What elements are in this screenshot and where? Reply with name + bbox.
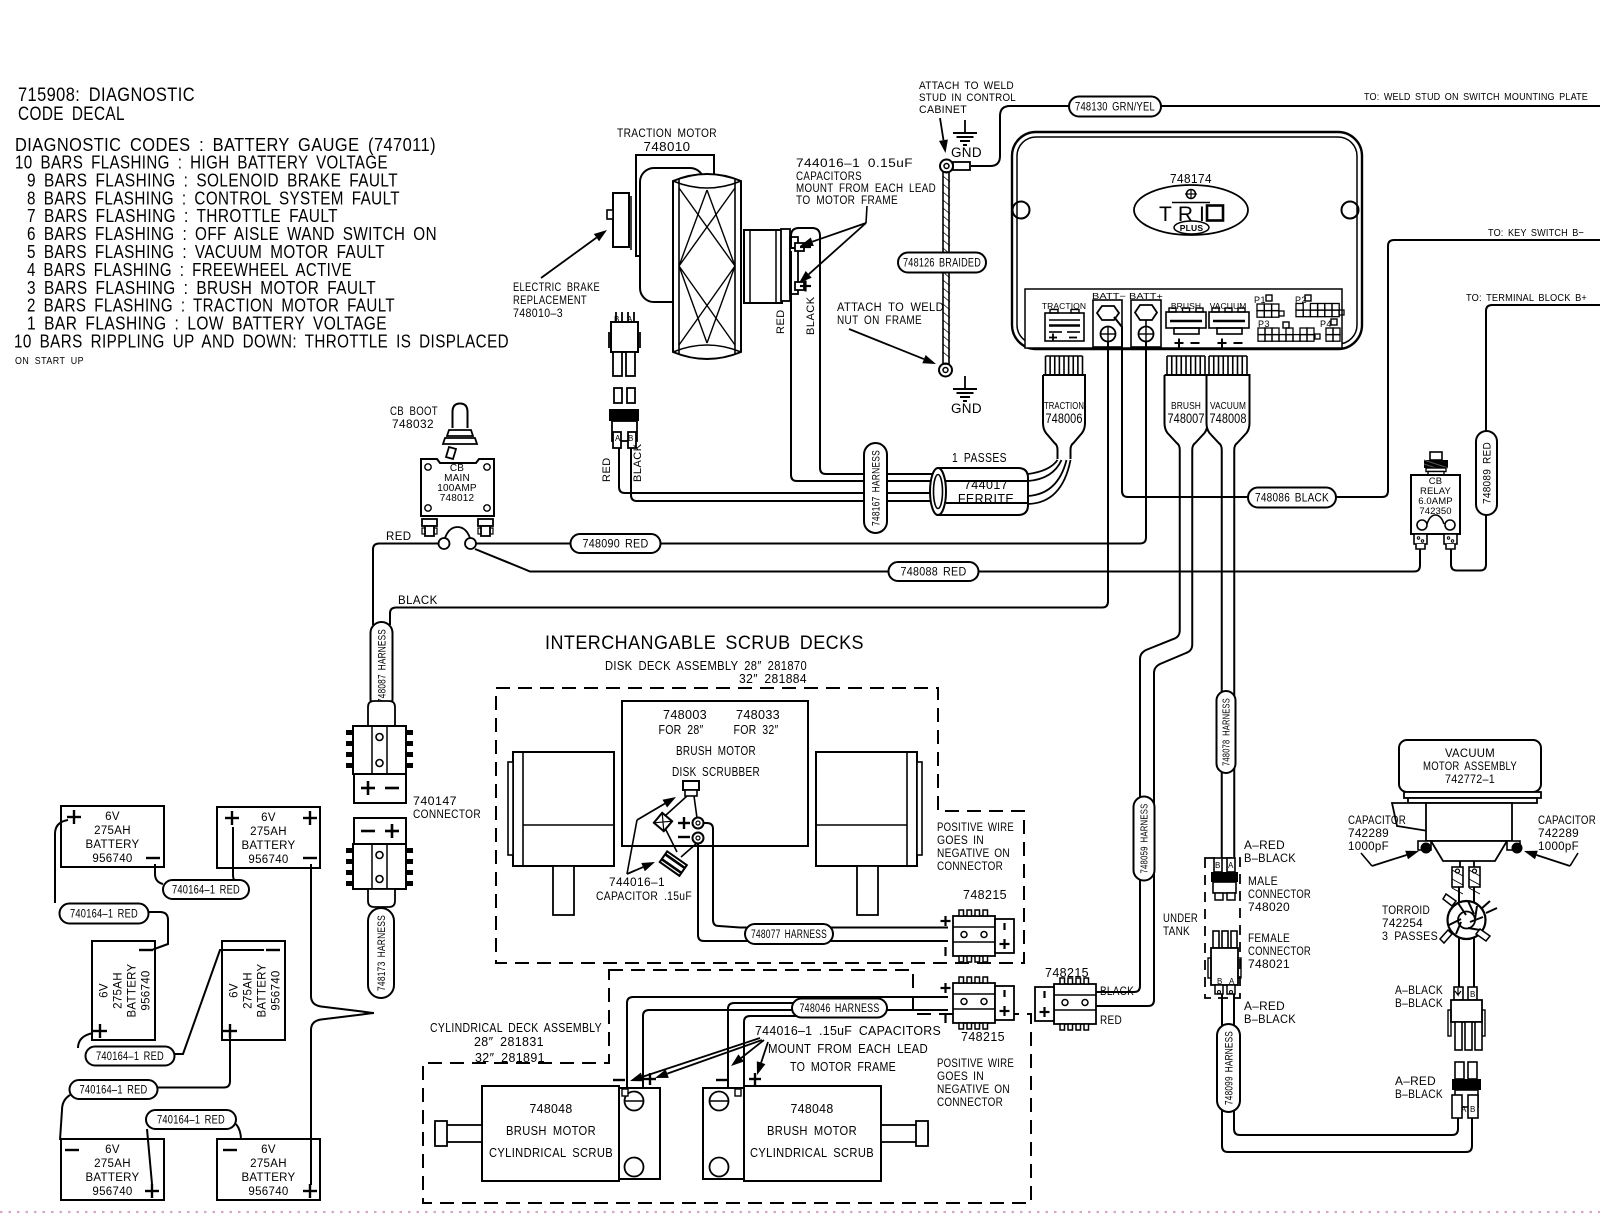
svg-text:BATTERY: BATTERY	[85, 1172, 139, 1184]
wire BATT- hex to key switch B- via 748086 BLACK	[1114, 240, 1600, 497]
diagnostic code decal text block	[14, 85, 509, 367]
svg-text:275AH: 275AH	[250, 826, 287, 838]
wire BATT+ screw to CB MAIN right junction via 748090 RED	[476, 341, 1146, 544]
ring terminal upper	[940, 160, 970, 173]
minus marker cyl motor2	[716, 1079, 728, 1081]
cable connector TRACTION 748006	[1043, 356, 1085, 459]
svg-text:CYLINDRICAL SCRUB: CYLINDRICAL SCRUB	[489, 1146, 613, 1160]
note 744016-1 .15uF capacitors mount from each lead to motor frame	[755, 1024, 941, 1074]
svg-text:748032: 748032	[392, 419, 434, 431]
plus marker at cyl 748215	[941, 987, 951, 989]
svg-text:748088 RED: 748088 RED	[901, 565, 967, 579]
cable connector BRUSH 748007	[1165, 356, 1208, 459]
terminal BATT+ on panel	[1129, 291, 1163, 347]
wire disk plus to 748215 connector	[703, 823, 948, 928]
plus marker cyl motor1	[644, 1078, 656, 1080]
svg-text:744016–1 0.15uF: 744016–1 0.15uF	[796, 158, 913, 170]
vacuum connector lower (A-RED)	[1452, 1062, 1481, 1118]
svg-text:CAPACITOR: CAPACITOR	[1538, 815, 1596, 827]
svg-text:748215: 748215	[1045, 966, 1089, 980]
wire cyl motor2 plus to 748046 harness	[744, 1016, 840, 1087]
svg-text:CONNECTOR: CONNECTOR	[1248, 889, 1311, 901]
svg-text:FEMALE: FEMALE	[1248, 933, 1290, 945]
connector P4 on panel	[1320, 319, 1340, 341]
wire 748130 GRN/YEL to weld stud on mounting plate	[1160, 105, 1600, 107]
svg-text:742254: 742254	[1382, 918, 1423, 930]
svg-text:STUD IN CONTROL: STUD IN CONTROL	[919, 92, 1016, 104]
svg-text:TO: KEY SWITCH B−: TO: KEY SWITCH B−	[1488, 227, 1584, 239]
capacitor 744016-1 on disk motor	[654, 813, 672, 831]
wire vacuum leads through toroid	[1459, 887, 1474, 987]
wire cyl motor2 minus to 748046 harness	[728, 1003, 820, 1087]
svg-text:742289: 742289	[1538, 828, 1579, 840]
svg-text:CONNECTOR: CONNECTOR	[937, 861, 1003, 873]
arrows from capacitor note to motor leads	[630, 1038, 768, 1081]
svg-text:1000pF: 1000pF	[1348, 841, 1389, 853]
minus marker at disk 748215	[944, 947, 946, 956]
cylindrical deck dashed boundary	[423, 970, 1031, 1203]
svg-text:TO: WELD STUD ON SWITCH M: TO: WELD STUD ON SWITCH MOUNTING PLATE	[1364, 91, 1588, 103]
svg-text:BATTERY: BATTERY	[241, 840, 295, 852]
wire BATT- screw to 748087 harness (BLACK)	[390, 341, 1108, 625]
svg-text:956740: 956740	[271, 970, 283, 1010]
svg-text:CB BOOT: CB BOOT	[390, 406, 438, 418]
disk brush motor right (side view)	[816, 752, 922, 915]
positive wire note (disk)	[937, 822, 1014, 873]
svg-text:BATTERY: BATTERY	[85, 839, 139, 851]
connector P2 on panel	[1295, 295, 1344, 317]
svg-text:748167 HARNESS: 748167 HARNESS	[870, 450, 882, 526]
arrow leader from capacitor note to minus terminal	[800, 206, 867, 246]
svg-text:1 PASSES: 1 PASSES	[952, 451, 1007, 465]
svg-text:CYLINDRICAL DECK ASSEMBLY: CYLINDRICAL DECK ASSEMBLY	[430, 1020, 602, 1035]
svg-text:ATTACH TO WELD: ATTACH TO WELD	[919, 80, 1014, 92]
wire 748099 harness to vacuum plug (bottom lead)	[1222, 1110, 1472, 1152]
svg-text:RED: RED	[601, 457, 613, 482]
svg-text:742772–1: 742772–1	[1445, 772, 1495, 786]
svg-text:748089 RED: 748089 RED	[1481, 442, 1493, 504]
svg-text:748010: 748010	[644, 140, 691, 154]
svg-text:TO: TERMINAL BLOCK B+: TO: TERMINAL BLOCK B+	[1466, 292, 1587, 304]
lead from terminal box to plus stud	[694, 796, 697, 818]
wire cyl motor1 minus to 748046 harness	[627, 997, 948, 1087]
svg-text:748090 RED: 748090 RED	[583, 537, 649, 551]
svg-text:748048: 748048	[530, 1102, 573, 1116]
svg-text:FOR 28″: FOR 28″	[659, 723, 704, 737]
wire disk minus to 748215 connector	[698, 843, 948, 941]
svg-text:A–BLACK: A–BLACK	[1395, 985, 1443, 997]
label A-BLACK B-BLACK	[1395, 985, 1443, 1010]
svg-text:748020: 748020	[1248, 902, 1290, 914]
plus marker cyl motor2	[749, 1078, 761, 1080]
label oval 740164-1 RED #4	[70, 1080, 158, 1099]
svg-text:B–BLACK: B–BLACK	[1395, 998, 1443, 1010]
label A-RED B-BLACK below female connector	[1244, 1001, 1296, 1026]
note: attach to weld nut on frame	[837, 302, 944, 327]
label oval 748087 HARNESS vertical	[371, 622, 393, 710]
terminal minus of traction motor	[795, 243, 811, 251]
svg-text:748126 BRAIDED: 748126 BRAIDED	[903, 256, 981, 270]
svg-text:B: B	[1470, 1105, 1476, 1114]
label cylindrical deck assembly part numbers	[430, 1020, 602, 1065]
svg-text:A: A	[1228, 861, 1234, 870]
svg-text:6V: 6V	[99, 983, 111, 998]
ground symbol GND lower	[951, 376, 982, 416]
label oval 748126 BRAIDED	[898, 253, 986, 273]
toggle boot of circuit breaker	[443, 404, 477, 460]
label oval 748130 GRN/YEL	[1069, 97, 1161, 117]
svg-text:748077 HARNESS: 748077 HARNESS	[751, 929, 827, 941]
svg-text:B–BLACK: B–BLACK	[1395, 1089, 1443, 1101]
svg-text:275AH: 275AH	[250, 1158, 287, 1170]
note: 744016-1 0.15uF capacitors mount from each lead to motor frame	[796, 158, 936, 207]
wire 748099 harness to vacuum plug (top lead)	[1234, 1110, 1458, 1135]
svg-text:GOES IN: GOES IN	[937, 835, 984, 847]
battery B5 6V 275AH 956740	[61, 1139, 164, 1200]
svg-text:TRACTION MOTOR: TRACTION MOTOR	[617, 126, 717, 140]
battery B2 6V 275AH 956740	[217, 807, 320, 868]
svg-text:ATTACH TO WELD: ATTACH TO WELD	[837, 302, 944, 314]
svg-text:748087 HARNESS: 748087 HARNESS	[376, 629, 388, 703]
capacitor mount dot left	[1421, 843, 1431, 853]
svg-text:NEGATIVE ON: NEGATIVE ON	[937, 848, 1010, 860]
arrow from cabinet note to ring terminal	[940, 118, 944, 140]
vacuum motor assembly label box 742772-1	[1399, 740, 1541, 792]
label oval 748088 RED	[889, 562, 979, 581]
svg-text:RED: RED	[386, 531, 411, 543]
terminal BATT- on panel	[1092, 291, 1126, 347]
label oval 748078 HARNESS vertical	[1217, 691, 1236, 773]
svg-text:CAPACITORS: CAPACITORS	[796, 171, 862, 183]
label TORROID 742254 3 PASSES	[1382, 905, 1438, 943]
battery B4 6V 275AH 956740 (rotated)	[222, 941, 285, 1040]
svg-text:FOR 32″: FOR 32″	[734, 723, 779, 737]
svg-text:CONNECTOR: CONNECTOR	[937, 1097, 1003, 1109]
minus stud of disk motor	[678, 833, 704, 858]
svg-text:956740: 956740	[248, 1186, 288, 1198]
svg-text:748021: 748021	[1248, 959, 1290, 971]
svg-text:748048: 748048	[791, 1102, 834, 1116]
svg-text:748046 HARNESS: 748046 HARNESS	[800, 1003, 880, 1015]
screw hole left	[1013, 202, 1030, 219]
minus marker at cyl 748215	[944, 1014, 946, 1023]
braided ground strap 748126	[943, 172, 950, 364]
CB MAIN right bolt terminal	[478, 519, 493, 536]
disk scrubber central block with labels	[622, 701, 808, 846]
svg-text:VACUUM: VACUUM	[1445, 746, 1495, 760]
terminal BRUSH on panel	[1166, 301, 1206, 348]
CB boot 748032 label	[390, 406, 438, 431]
label FEMALE CONNECTOR 748021	[1248, 933, 1311, 971]
terminal TRACTION on panel	[1042, 301, 1086, 342]
label oval 748077 HARNESS	[745, 924, 833, 944]
svg-text:748010–3: 748010–3	[513, 308, 563, 320]
svg-text:275AH: 275AH	[113, 972, 125, 1009]
plus stud of disk motor	[678, 817, 704, 829]
page edge dotted line	[0, 1211, 1600, 1213]
svg-text:B: B	[1470, 990, 1476, 999]
svg-text:PLUS: PLUS	[1180, 223, 1204, 233]
svg-text:B: B	[628, 434, 634, 443]
svg-text:744016–1 .15uF CAPACITORS: 744016–1 .15uF CAPACITORS	[755, 1024, 941, 1038]
svg-text:MALE: MALE	[1248, 876, 1278, 888]
svg-text:BATTERY: BATTERY	[127, 963, 139, 1017]
svg-text:ELECTRIC BRAKE: ELECTRIC BRAKE	[513, 282, 600, 294]
junction circle left	[439, 538, 450, 549]
svg-text:BLACK: BLACK	[805, 296, 817, 335]
svg-text:GOES IN: GOES IN	[937, 1071, 984, 1083]
circuit breaker CB RELAY 6.0AMP 742350	[1411, 452, 1460, 534]
label 740147 CONNECTOR	[413, 796, 481, 821]
arrow from note to terminal box	[627, 797, 676, 874]
female connector 748021	[1208, 931, 1241, 994]
jumper hump between CB MAIN junctions	[444, 527, 471, 541]
label oval 748059 HARNESS vertical	[1134, 797, 1155, 881]
wire brake red lead	[631, 448, 933, 501]
arrow from weld nut note to lower ring terminal	[849, 329, 924, 359]
ground symbol GND top	[951, 120, 982, 160]
svg-text:715908: DIAGNOSTIC: 715908: DIAGNOSTIC	[18, 85, 195, 106]
label oval 748046 HARNESS	[792, 999, 887, 1018]
svg-text:6V: 6V	[229, 983, 241, 998]
disk motor terminal box	[683, 781, 699, 796]
svg-text:956740: 956740	[248, 854, 288, 866]
arrow from brake note to motor bracket	[541, 238, 597, 278]
terminal plus of traction motor	[795, 281, 811, 292]
svg-text:BLACK: BLACK	[398, 595, 438, 607]
arrow leader from capacitor note to plus terminal	[809, 223, 866, 274]
controller terminal panel	[1025, 289, 1342, 348]
wire B4+ to B5- jumper	[60, 1038, 230, 1140]
svg-text:748099 HARNESS: 748099 HARNESS	[1223, 1031, 1235, 1105]
svg-text:32″ 281891: 32″ 281891	[475, 1050, 545, 1065]
cable connector VACUUM 748008	[1207, 356, 1250, 459]
svg-text:748033: 748033	[736, 708, 780, 722]
junction circle right	[465, 538, 476, 549]
loose connector 748215 with BLACK/RED leads	[1035, 978, 1096, 1030]
label oval 748086 BLACK	[1248, 488, 1336, 508]
wire brake black lead	[619, 448, 933, 493]
arrow from right capacitor label to dot	[1524, 851, 1578, 866]
male connector 748020	[1211, 858, 1238, 900]
battery B3 6V 275AH 956740 (rotated)	[92, 941, 155, 1040]
svg-text:B–BLACK: B–BLACK	[1244, 1014, 1296, 1026]
ring terminal lower	[939, 364, 952, 377]
svg-text:TO MOTOR FRAME: TO MOTOR FRAME	[790, 1060, 896, 1074]
terminal VACUUM on panel	[1209, 301, 1249, 348]
label oval 740164-1 RED #2	[60, 904, 149, 924]
wire B1+ to B3- jumper	[55, 820, 168, 950]
wire cyl motor1 plus to 748046 harness	[643, 1010, 948, 1087]
svg-text:B: B	[1215, 861, 1221, 870]
svg-text:TANK: TANK	[1163, 926, 1190, 938]
svg-text:POSITIVE WIRE: POSITIVE WIRE	[937, 1058, 1014, 1070]
wire VACUUM cable left lead down to male connector	[1221, 459, 1223, 858]
svg-text:BRUSH MOTOR: BRUSH MOTOR	[767, 1124, 857, 1138]
CB MAIN left bolt terminal	[422, 519, 437, 536]
wire female connector to 748099 harness	[1222, 994, 1234, 1027]
svg-text:748130 GRN/YEL: 748130 GRN/YEL	[1075, 100, 1155, 114]
capacitor lead to terminal box	[665, 796, 687, 852]
label disk deck assembly part numbers	[605, 658, 807, 686]
wire fan from ferrite to traction cable	[1028, 460, 1071, 504]
svg-text:1000pF: 1000pF	[1538, 841, 1579, 853]
positive wire note (cylindrical)	[937, 1058, 1014, 1109]
wire CB MAIN left junction to 748087 harness (RED)	[373, 544, 439, 626]
svg-text:REPLACEMENT: REPLACEMENT	[513, 295, 587, 307]
battery B6 6V 275AH 956740	[217, 1139, 320, 1200]
plus marker at disk 748215	[941, 920, 951, 922]
svg-text:748059 HARNESS: 748059 HARNESS	[1139, 804, 1151, 874]
svg-text:A–RED: A–RED	[1244, 840, 1285, 852]
toroid 742254	[1440, 894, 1497, 943]
wire BRUSH cable left lead down to connector	[1096, 459, 1180, 992]
label A-RED B-BLACK at lower vacuum connector	[1395, 1076, 1443, 1101]
svg-text:TO MOTOR FRAME: TO MOTOR FRAME	[796, 195, 898, 207]
vacuum connector upper (A-BLACK)	[1448, 987, 1485, 1050]
svg-text:748006: 748006	[1046, 411, 1083, 426]
label oval 748089 RED vertical	[1476, 431, 1497, 515]
ferrite 744017 cylinder	[930, 468, 1028, 515]
connector 748215 on disk deck	[963, 888, 1007, 902]
label MALE CONNECTOR 748020	[1248, 876, 1311, 914]
svg-text:748078 HARNESS: 748078 HARNESS	[1221, 698, 1233, 766]
svg-text:6V: 6V	[105, 811, 120, 823]
svg-text:740164–1 RED: 740164–1 RED	[70, 909, 138, 921]
svg-text:BATTERY: BATTERY	[257, 963, 269, 1017]
svg-text:RED: RED	[775, 309, 787, 334]
note 744016-1 CAPACITOR .15uF	[596, 875, 692, 903]
circuit breaker CB MAIN 100AMP 748012	[421, 459, 494, 516]
svg-text:CABINET: CABINET	[919, 104, 967, 116]
svg-text:MOUNT FROM EACH LEAD: MOUNT FROM EACH LEAD	[796, 183, 936, 195]
svg-text:740164–1 RED: 740164–1 RED	[96, 1051, 164, 1063]
traction motor 748010	[607, 155, 798, 359]
svg-text:744016–1: 744016–1	[609, 875, 665, 889]
wire traction motor red lead	[791, 251, 933, 481]
capacitor mount dot right	[1512, 843, 1522, 853]
disk brush motor left (side view)	[508, 752, 614, 915]
svg-text:275AH: 275AH	[243, 972, 255, 1009]
svg-text:A–RED: A–RED	[1244, 1001, 1285, 1013]
brake connector lower (mating)	[609, 388, 639, 448]
wire BRUSH cable right lead down to connector	[1096, 459, 1192, 1006]
svg-text:CYLINDRICAL SCRUB: CYLINDRICAL SCRUB	[750, 1146, 874, 1160]
svg-text:UNDER: UNDER	[1163, 913, 1198, 925]
upper 740147 connector half	[346, 701, 413, 803]
svg-text:MOUNT FROM EACH LEAD: MOUNT FROM EACH LEAD	[768, 1042, 928, 1056]
svg-text:MOTOR ASSEMBLY: MOTOR ASSEMBLY	[1423, 759, 1517, 773]
wire B3+ to B4- jumper	[78, 950, 264, 1054]
svg-text:INTERCHANGABLE SCRUB DECKS: INTERCHANGABLE SCRUB DECKS	[545, 632, 864, 654]
svg-text:748003: 748003	[663, 708, 707, 722]
TRIO PLUS logo	[1134, 185, 1248, 235]
CB RELAY left lug	[1414, 534, 1427, 549]
svg-text:742289: 742289	[1348, 828, 1389, 840]
vacuum motor lead terminals	[1452, 861, 1480, 894]
wire RED/BLACK into 748087 harness from above (drawn earlier), stem to connector	[373, 700, 390, 707]
brake connector upper	[609, 312, 640, 376]
wire B1- to B2+ jumper	[155, 827, 241, 884]
controller box TRIO PLUS	[1012, 132, 1362, 349]
svg-text:BATTERY: BATTERY	[241, 1172, 295, 1184]
svg-text:BLACK: BLACK	[632, 443, 644, 482]
svg-text:28″ 281831: 28″ 281831	[474, 1034, 544, 1049]
note: attach to weld stud in control cabinet	[919, 80, 1016, 116]
svg-text:748215: 748215	[963, 888, 1007, 902]
svg-text:10 BARS RIPPLING UP AND D: 10 BARS RIPPLING UP AND DOWN: THROTTLE I…	[14, 331, 509, 352]
svg-text:ON START UP: ON START UP	[15, 356, 84, 367]
svg-text:A: A	[615, 434, 621, 443]
disk deck dashed boundary	[496, 688, 1024, 963]
minus marker cyl motor1	[613, 1079, 625, 1081]
svg-text:740164–1 RED: 740164–1 RED	[80, 1085, 148, 1097]
vacuum motor body	[1392, 792, 1541, 861]
screw hole right	[1342, 202, 1359, 219]
svg-text:GND: GND	[951, 145, 982, 160]
second capacitor 744016-1 below	[660, 851, 687, 875]
label A-RED B-BLACK above male connector	[1244, 840, 1296, 865]
svg-text:NEGATIVE ON: NEGATIVE ON	[937, 1084, 1010, 1096]
svg-text:B–BLACK: B–BLACK	[1244, 853, 1296, 865]
battery B1 6V 275AH 956740	[61, 806, 164, 867]
label CAPACITOR 742289 1000pF right	[1538, 815, 1596, 853]
svg-text:NUT ON FRAME: NUT ON FRAME	[837, 315, 922, 327]
label oval 740164-1 RED #1	[163, 880, 249, 899]
arrow from note to capacitor	[627, 867, 643, 874]
connector 748215 on cylindrical deck	[953, 977, 1014, 1029]
svg-text:740164–1 RED: 740164–1 RED	[172, 885, 240, 897]
svg-text:POSITIVE WIRE: POSITIVE WIRE	[937, 822, 1014, 834]
svg-text:748173 HARNESS: 748173 HARNESS	[376, 915, 388, 991]
svg-text:275AH: 275AH	[94, 1158, 131, 1170]
label UNDER TANK	[1163, 913, 1198, 938]
traction motor label 748010	[617, 126, 717, 154]
svg-text:A: A	[1461, 1105, 1467, 1114]
label oval 740164-1 RED #5	[146, 1110, 236, 1129]
label oval 748173 HARNESS vertical	[368, 908, 394, 998]
wire traction motor black lead (loop over top)	[791, 228, 933, 474]
svg-text:TORROID: TORROID	[1382, 905, 1430, 917]
label oval 740164-1 RED #3	[86, 1047, 175, 1066]
svg-text:956740: 956740	[92, 1186, 132, 1198]
svg-text:748174: 748174	[1170, 171, 1212, 186]
svg-text:748012: 748012	[440, 493, 475, 504]
svg-text:6V: 6V	[261, 812, 276, 824]
svg-text:740164–1 RED: 740164–1 RED	[157, 1115, 225, 1127]
svg-text:GND: GND	[951, 401, 982, 416]
label oval 748167 HARNESS	[864, 443, 887, 533]
svg-text:CONNECTOR: CONNECTOR	[413, 809, 481, 821]
under tank dashed box	[1205, 858, 1240, 998]
svg-text:CODE DECAL: CODE DECAL	[18, 104, 125, 125]
label CAPACITOR 742289 1000pF left	[1348, 815, 1406, 853]
svg-text:748008: 748008	[1210, 411, 1247, 426]
wire from ring terminal lug to 748130 label	[971, 106, 1070, 166]
wires through ferrite	[946, 480, 1028, 482]
svg-text:6V: 6V	[261, 1144, 276, 1156]
svg-text:BLACK: BLACK	[1100, 986, 1134, 998]
connector P3 on panel	[1258, 319, 1320, 341]
wire B2- down and S-curve to 748173 harness	[311, 864, 374, 1013]
connector P1 on panel	[1254, 295, 1284, 317]
wire B6+ up and S-curve to 748173 harness	[311, 1013, 374, 1185]
svg-text:748007: 748007	[1168, 411, 1205, 426]
svg-text:CAPACITOR .15uF: CAPACITOR .15uF	[596, 889, 692, 903]
svg-text:6V: 6V	[105, 1144, 120, 1156]
svg-text:RED: RED	[1100, 1015, 1122, 1027]
wire CB MAIN right junction diagonal to 748088 RED line	[475, 549, 1420, 572]
